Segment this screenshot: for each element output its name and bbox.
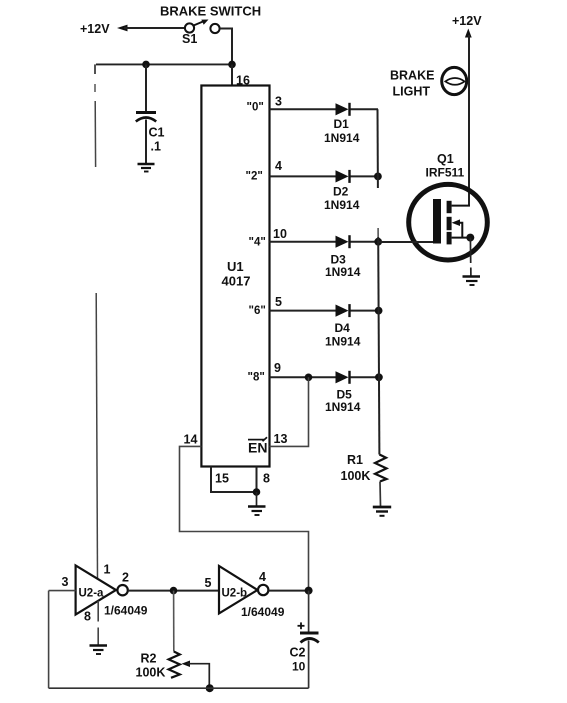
svg-text:14: 14 <box>184 433 198 447</box>
svg-text:U1: U1 <box>227 259 244 274</box>
svg-text:4: 4 <box>275 159 282 173</box>
svg-text:BRAKE: BRAKE <box>390 69 434 83</box>
svg-text:D1: D1 <box>334 117 350 131</box>
svg-text:8: 8 <box>263 472 270 486</box>
node junction D3/bus/gate <box>374 238 382 246</box>
wire U2-a out to U2-b in <box>128 590 219 592</box>
wire +12V down to Q1 drain <box>468 35 470 207</box>
wire left lower rail <box>48 591 50 689</box>
svg-text:+12V: +12V <box>80 22 110 36</box>
wire S1 right contact to corner <box>220 29 232 65</box>
wire U1 pin 4 to D2 <box>270 175 337 177</box>
R2 wiper arrow <box>182 661 191 668</box>
node junction pin9 / pin13 feedback <box>305 374 313 382</box>
svg-text:+12V: +12V <box>452 14 482 28</box>
arrow to +12V (left) <box>117 25 128 32</box>
svg-text:"0": "0" <box>247 102 264 114</box>
node junction R2 wiper / bottom rail <box>206 684 214 692</box>
svg-text:.1: .1 <box>151 140 161 154</box>
svg-text:8: 8 <box>84 610 91 624</box>
inverter U2-a <box>76 565 116 614</box>
switch S1 contact left <box>185 23 194 32</box>
wire D4 to bus <box>351 310 379 312</box>
wire +12V arrow to S1 <box>124 27 185 29</box>
svg-text:IRF511: IRF511 <box>426 166 465 180</box>
capacitor C2 <box>300 632 319 635</box>
svg-text:1N914: 1N914 <box>325 265 361 279</box>
svg-text:4: 4 <box>259 570 266 584</box>
svg-text:1N914: 1N914 <box>324 131 360 145</box>
svg-text:9: 9 <box>274 361 281 375</box>
Q1 source lead <box>452 237 471 239</box>
svg-text:3: 3 <box>275 95 282 109</box>
wire R1 to ground <box>379 482 382 507</box>
wire bottom rail <box>49 687 309 689</box>
resistor R1 <box>375 455 387 482</box>
switch S1 contact right <box>210 24 219 33</box>
svg-text:1/64049: 1/64049 <box>104 604 148 618</box>
Q1 body lead with arrow <box>452 219 460 226</box>
wire U1 pin 9 to D5 <box>270 376 337 378</box>
arrow up +12V (right) <box>465 29 472 38</box>
svg-text:BRAKE SWITCH: BRAKE SWITCH <box>160 4 261 19</box>
svg-text:2: 2 <box>122 571 129 585</box>
diode D5 <box>336 371 349 383</box>
diode D3 <box>336 236 349 248</box>
U2-a output bubble <box>117 585 127 595</box>
wire D3 to bus <box>351 241 379 243</box>
inverter U2-b <box>219 566 258 613</box>
wire C1 bottom lead <box>145 120 147 164</box>
svg-text:"8": "8" <box>248 372 265 384</box>
svg-text:3: 3 <box>62 575 69 589</box>
wire U1 pin 3 to D1 <box>270 108 337 110</box>
svg-text:D2: D2 <box>333 185 349 199</box>
ground (C1) <box>138 163 155 166</box>
node junction D5/bus <box>375 373 383 381</box>
Q1 gate bar <box>433 199 441 244</box>
svg-text:4017: 4017 <box>222 274 251 289</box>
svg-text:5: 5 <box>205 576 212 590</box>
node junction source/body <box>466 234 474 242</box>
wire C1 top lead <box>145 64 147 111</box>
wire gate to diode bus <box>378 241 433 243</box>
svg-text:LIGHT: LIGHT <box>393 85 431 99</box>
wire U1 pin 14 to clock node <box>180 446 309 590</box>
diode D1 <box>336 103 349 115</box>
Q1 channel segment body <box>447 217 452 230</box>
svg-text:15: 15 <box>215 472 229 486</box>
node junction C1 tap <box>142 61 150 69</box>
wire to U1 pin 16 <box>231 64 233 86</box>
node junction U2-b out / clock <box>305 587 313 595</box>
wire top rail <box>96 63 232 65</box>
svg-text:"4": "4" <box>249 237 266 249</box>
wire U1 pin 15 stub <box>211 467 257 493</box>
svg-text:R2: R2 <box>141 652 157 666</box>
svg-text:C1: C1 <box>149 126 165 140</box>
svg-text:S1: S1 <box>182 32 197 46</box>
wire U2-b out to C2 node <box>268 590 308 592</box>
Q1 channel segment drain <box>447 201 452 213</box>
wire U1 pin 13 up to pin9 node <box>270 377 309 446</box>
svg-text:1: 1 <box>104 563 111 577</box>
switch S1 arm with arrowhead <box>194 22 204 26</box>
svg-text:"2": "2" <box>246 171 263 183</box>
ground (U2-a) <box>90 644 108 647</box>
IC U1 4017 body <box>201 86 269 467</box>
wire U1 pin 10 to D3 <box>270 241 337 243</box>
ground (Q1) <box>463 275 481 278</box>
diode D4 <box>336 305 349 317</box>
transistor Q1 body circle <box>409 184 488 260</box>
svg-text:Q1: Q1 <box>437 152 454 166</box>
node junction pins 15/8 <box>253 488 261 496</box>
Q1 channel segment source <box>447 232 452 245</box>
svg-text:1N914: 1N914 <box>325 335 361 349</box>
wire C2 bottom lead <box>308 641 310 689</box>
svg-text:100K: 100K <box>341 469 371 483</box>
wire U1 pin 8 stub <box>256 467 258 493</box>
lamp brake light <box>442 67 467 94</box>
wire diode output bus <box>377 109 379 188</box>
svg-text:D4: D4 <box>335 321 351 335</box>
node junction U2-a out / R2 <box>170 587 178 595</box>
svg-text:C2: C2 <box>290 646 306 660</box>
wire D1 to bus corner <box>351 108 379 110</box>
potentiometer R2 <box>169 652 180 678</box>
wire U1 pin 5 to D4 <box>270 310 337 312</box>
wire R2 top lead <box>173 591 175 652</box>
capacitor C1 <box>136 111 156 114</box>
Q1 drain lead <box>452 205 470 207</box>
svg-text:"6": "6" <box>249 305 266 317</box>
diode D2 <box>336 170 349 182</box>
wire U2-a pin8 to ground <box>97 601 99 622</box>
U2-b output bubble <box>258 585 268 595</box>
ground (U1) <box>248 505 266 508</box>
node junction S1 / pin16 <box>228 61 236 69</box>
node junction D4/bus <box>375 307 383 315</box>
capacitor C2 polarity + <box>298 625 305 627</box>
wire U2-a input <box>49 590 76 592</box>
wire D5 to bus <box>351 376 379 378</box>
svg-text:EN: EN <box>248 440 267 456</box>
wire left +12V rail (upper, with scan gap) <box>94 64 96 74</box>
ground (R1) <box>373 506 391 509</box>
svg-text:R1: R1 <box>347 453 363 467</box>
svg-text:5: 5 <box>275 295 282 309</box>
node junction D2/bus <box>374 173 382 181</box>
svg-text:U2-a: U2-a <box>79 588 105 600</box>
wire C2 top lead <box>308 591 310 632</box>
wire to ground (U1) <box>256 492 258 506</box>
svg-text:U2-b: U2-b <box>222 588 248 600</box>
wire D2 to bus <box>351 175 379 177</box>
svg-text:1N914: 1N914 <box>325 400 361 414</box>
svg-text:10: 10 <box>273 227 287 241</box>
svg-text:100K: 100K <box>136 666 166 680</box>
svg-text:1N914: 1N914 <box>324 198 360 212</box>
wire Q1 source to ground <box>469 238 471 263</box>
svg-text:1/64049: 1/64049 <box>241 605 285 619</box>
svg-text:13: 13 <box>274 432 288 446</box>
svg-text:10: 10 <box>292 660 306 674</box>
